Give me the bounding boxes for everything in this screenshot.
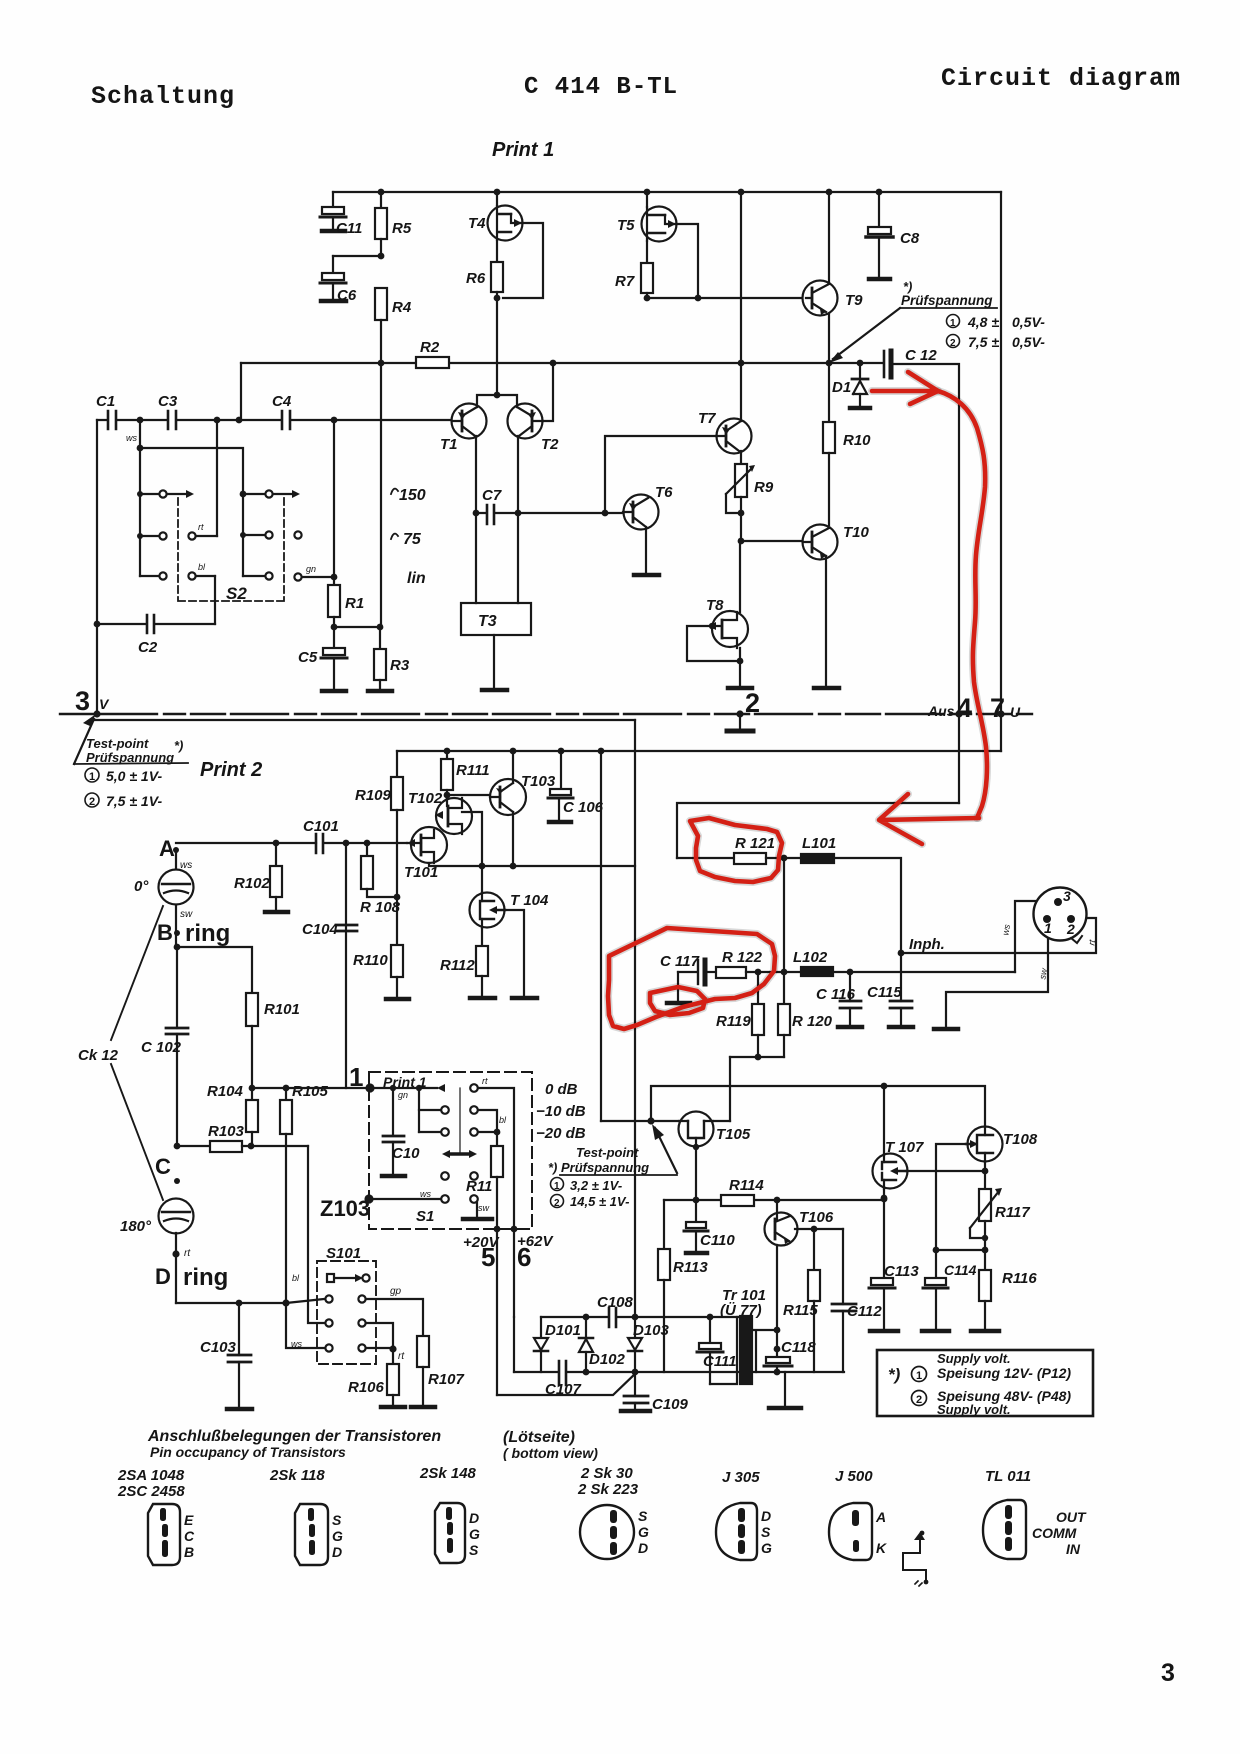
transistor T106 [776, 1200, 778, 1213]
svg-text:C6: C6 [337, 287, 357, 304]
capacitor C104 [345, 843, 347, 1088]
svg-text:R 120: R 120 [792, 1013, 833, 1030]
S2 row3 left [140, 575, 159, 577]
capacitor C11 [332, 192, 334, 207]
svg-text:C3: C3 [158, 393, 178, 410]
svg-text:R104: R104 [207, 1083, 244, 1100]
svg-text:S: S [761, 1524, 771, 1540]
svg-text:G: G [761, 1540, 772, 1556]
svg-text:R9: R9 [754, 479, 774, 496]
wire bl vertical to S101 [308, 1146, 324, 1323]
transistor T9 [803, 281, 838, 316]
svg-text:gp: gp [390, 1286, 402, 1297]
svg-text:Prüfspannung: Prüfspannung [901, 293, 993, 308]
svg-text:V: V [99, 696, 110, 712]
svg-text:Z103: Z103 [320, 1196, 370, 1221]
svg-text:rt: rt [398, 1351, 405, 1362]
svg-text:2: 2 [916, 1394, 922, 1406]
svg-text:3: 3 [75, 686, 90, 716]
svg-text:T 107: T 107 [885, 1139, 924, 1156]
resistor R119 [757, 972, 759, 1004]
svg-text:(Lötseite): (Lötseite) [503, 1429, 575, 1446]
svg-text:T2: T2 [541, 436, 559, 453]
capacitor C2 [147, 615, 154, 633]
svg-text:3: 3 [1161, 1659, 1175, 1687]
svg-text:R119: R119 [716, 1013, 751, 1030]
package 2SA1048 [148, 1504, 180, 1565]
svg-text:OUT: OUT [1056, 1509, 1087, 1525]
svg-text:R112: R112 [440, 957, 475, 974]
box T3 [461, 603, 531, 635]
svg-text:gn: gn [398, 1090, 408, 1100]
wire +20V wrap line [497, 1372, 637, 1395]
wire R121 node down [783, 858, 785, 1004]
svg-text:T3: T3 [478, 613, 497, 630]
resistor R6 [496, 240, 498, 262]
svg-text:S1: S1 [416, 1208, 434, 1225]
wire T108 source to gate line [984, 1162, 986, 1171]
wire C12 out down to Print2 [894, 364, 959, 803]
wire C6 to R5R4 node [333, 255, 381, 257]
svg-text:R6: R6 [466, 270, 486, 287]
label test voltages print1 [947, 315, 960, 328]
svg-text:rt: rt [198, 522, 204, 532]
capsule A line y=843 [176, 842, 407, 844]
package TL011 [983, 1500, 1026, 1559]
svg-text:R110: R110 [353, 952, 388, 969]
svg-text:bl: bl [292, 1273, 300, 1283]
svg-text:2: 2 [745, 688, 760, 718]
svg-text:C: C [184, 1528, 195, 1544]
svg-text:T 104: T 104 [510, 892, 549, 909]
svg-text:C5: C5 [298, 649, 318, 666]
svg-text:Ck 12: Ck 12 [78, 1047, 119, 1064]
svg-text:rt: rt [482, 1076, 488, 1086]
red loop around C117 R122 [608, 928, 775, 1029]
svg-text:4,8 ±: 4,8 ± [967, 314, 999, 330]
svg-text:T108: T108 [1003, 1131, 1038, 1148]
test-point block print2 left [74, 719, 94, 764]
svg-text:T5: T5 [617, 217, 635, 234]
wire T102 source to line [462, 812, 482, 866]
package 2Sk118 [295, 1504, 328, 1565]
capacitor C5 [333, 627, 335, 648]
wire T2 emitter down [517, 436, 519, 513]
svg-text:C8: C8 [900, 230, 920, 247]
wire Inph to pin2 [901, 918, 1096, 953]
ground T10 [825, 556, 827, 686]
resistor R122 [716, 967, 746, 978]
svg-text:7,5 ±: 7,5 ± [968, 334, 999, 350]
wire R105/D to S101 rows [286, 1299, 324, 1348]
svg-text:1: 1 [1044, 920, 1052, 936]
wire C7 node to T6 [518, 512, 623, 514]
switch S1 spare row [441, 1172, 449, 1180]
wire T6 collector up and to T7 [605, 436, 716, 513]
svg-text:*): *) [888, 1365, 901, 1384]
svg-text:B: B [184, 1544, 194, 1560]
node R5/R4/C6 [378, 253, 385, 260]
transistor T7 [717, 419, 752, 454]
svg-text:4: 4 [957, 693, 972, 723]
svg-text:C112: C112 [847, 1303, 882, 1320]
svg-text:C 414 B-TL: C 414 B-TL [524, 74, 678, 101]
transistor T102 [436, 798, 472, 834]
wire T103 collector/emitter [512, 751, 514, 866]
wire pin3 [1015, 901, 1055, 972]
wire R113 riser [663, 1200, 665, 1249]
capacitor C101 [316, 834, 323, 853]
svg-text:R10: R10 [843, 432, 871, 449]
svg-text:C 106: C 106 [563, 799, 604, 816]
svg-text:1: 1 [916, 1370, 922, 1382]
wire B to R101 [174, 944, 181, 951]
label 150 75 lin [391, 489, 398, 494]
svg-text:R109: R109 [355, 787, 392, 804]
svg-text:5: 5 [481, 1242, 495, 1272]
svg-text:R 121: R 121 [735, 835, 775, 852]
wire T7 collector to rail [740, 192, 742, 421]
svg-text:ws: ws [126, 433, 137, 443]
svg-text:C118: C118 [781, 1339, 816, 1356]
svg-text:G: G [332, 1528, 343, 1544]
resistor R110 [391, 945, 403, 977]
svg-text:1: 1 [349, 1062, 363, 1092]
S2 row1 left contacts+arrow [140, 493, 159, 495]
svg-text:R103: R103 [208, 1123, 245, 1140]
svg-text:T10: T10 [843, 524, 870, 541]
wire C2 to S2 wiper w [214, 576, 216, 624]
resistor R4 [375, 288, 387, 320]
transistor T1 [452, 404, 487, 439]
wire T1,T2 emitters into T3 [476, 513, 518, 603]
svg-text:lin: lin [407, 570, 426, 587]
svg-text:Print 1: Print 1 [492, 139, 554, 161]
box exit nodes [494, 1226, 501, 1233]
svg-text:R106: R106 [348, 1379, 385, 1396]
svg-text:Pin occupancy of Transistors: Pin occupancy of Transistors [150, 1444, 346, 1460]
svg-text:sw: sw [478, 1203, 490, 1213]
svg-text:150: 150 [399, 487, 426, 504]
transistor T103 [490, 779, 526, 815]
capacitor C7 [476, 512, 518, 514]
wire corner rail to C3C4 node [240, 363, 242, 420]
svg-text:Print 2: Print 2 [200, 759, 262, 781]
wire gp to R107 [366, 1299, 423, 1336]
ground T3 [493, 635, 495, 688]
svg-text:S: S [469, 1542, 479, 1558]
svg-text:Inph.: Inph. [909, 936, 945, 953]
svg-text:*) Prüfspannung: *) Prüfspannung [548, 1160, 649, 1175]
svg-text:Test-point: Test-point [576, 1145, 639, 1160]
wire C4 node down to R1 [333, 420, 335, 577]
svg-text:1: 1 [554, 1181, 560, 1192]
resistor R5 [380, 192, 382, 208]
box Z103 dashed [369, 1072, 532, 1229]
svg-text:D: D [155, 1264, 171, 1289]
wire R103 line [174, 1143, 181, 1150]
svg-text:3,2 ± 1V-: 3,2 ± 1V- [570, 1178, 622, 1193]
capacitor C6 [332, 256, 334, 273]
wire T106 emitter down [776, 1245, 778, 1349]
svg-text:S101: S101 [326, 1245, 361, 1262]
transistor T8 [712, 611, 748, 647]
node R1 bottom [331, 624, 338, 631]
wire supply line B y=1372 [514, 1371, 844, 1373]
wire C114/R116 link [936, 1249, 985, 1251]
diode D102 [585, 1317, 587, 1337]
wire T2 base to R2 rail [543, 363, 553, 421]
svg-text:5,0 ± 1V-: 5,0 ± 1V- [106, 768, 163, 784]
svg-text:R 122: R 122 [722, 949, 763, 966]
svg-text:Schaltung: Schaltung [91, 82, 235, 111]
wire R6 node down to T1T2 bridge [496, 298, 498, 395]
ground line B [784, 1372, 786, 1406]
wire D line to S101 [176, 1302, 286, 1304]
svg-text:J 500: J 500 [835, 1468, 873, 1485]
capacitor C117 [678, 971, 696, 973]
svg-text:COMM: COMM [1032, 1525, 1077, 1541]
svg-text:G: G [638, 1524, 649, 1540]
svg-text:C101: C101 [303, 818, 339, 835]
diode D103 [634, 1317, 636, 1338]
wire S2 top link [140, 448, 243, 491]
svg-text:bl: bl [499, 1115, 507, 1125]
switch S2 left group [139, 420, 141, 448]
svg-text:1: 1 [950, 318, 956, 329]
svg-text:T102: T102 [408, 790, 443, 807]
wire T8 gate loop [687, 626, 740, 661]
svg-text:D101: D101 [545, 1322, 581, 1339]
transistor T101 [411, 827, 447, 863]
wire T103 base [447, 794, 490, 796]
wire T4 drain loop [503, 223, 543, 298]
red annotation group [608, 372, 987, 1029]
svg-text:2Sk 118: 2Sk 118 [269, 1467, 325, 1484]
svg-text:D1: D1 [832, 379, 851, 396]
resistor R2 [416, 357, 449, 368]
svg-text:K: K [876, 1540, 887, 1556]
symbol small FET [903, 1536, 926, 1581]
resistor R121 [677, 857, 734, 859]
svg-text:0,5V-: 0,5V- [1012, 334, 1045, 350]
svg-text:Aus: Aus [927, 703, 955, 719]
svg-text:Supply volt.: Supply volt. [937, 1402, 1011, 1417]
svg-text:R113: R113 [673, 1259, 708, 1276]
svg-text:TL 011: TL 011 [985, 1468, 1031, 1485]
svg-text:D102: D102 [589, 1351, 626, 1368]
svg-text:rt: rt [184, 1248, 191, 1259]
svg-text:R114: R114 [729, 1177, 764, 1194]
svg-text:0°: 0° [134, 878, 149, 895]
wire T8 drain/source [739, 541, 741, 688]
svg-text:C: C [155, 1154, 171, 1179]
svg-text:bl: bl [198, 562, 206, 572]
diode D1 [859, 363, 861, 379]
resistor R111 [446, 751, 448, 759]
svg-text:D: D [469, 1510, 479, 1526]
box supply note [877, 1350, 1093, 1416]
package 2Sk148 [435, 1503, 465, 1563]
package J305 [716, 1503, 757, 1560]
svg-text:3: 3 [1063, 888, 1071, 904]
resistor R3 [379, 627, 381, 649]
vertical x=829 rail to R10 [828, 192, 830, 363]
wire R114 line [664, 1199, 884, 1201]
wire rail y=1086 [651, 1086, 985, 1127]
capacitor C10 [392, 1088, 394, 1135]
svg-text:R7: R7 [615, 273, 635, 290]
node Inph [898, 950, 905, 957]
node dots on R2 rail [378, 360, 864, 367]
resistor R105 [283, 1085, 290, 1092]
svg-text:R107: R107 [428, 1371, 465, 1388]
wire T1 emitter down [475, 436, 477, 513]
svg-text:R102: R102 [234, 875, 271, 892]
terminal rail dashed y=714 [60, 713, 1032, 715]
svg-text:R117: R117 [995, 1204, 1030, 1221]
node dots on top rail [378, 189, 883, 196]
svg-text:R 108: R 108 [360, 899, 401, 916]
wire T1T2 collector bridge [477, 395, 517, 407]
wire row4 to R106 [366, 1347, 393, 1349]
svg-text:Circuit diagram: Circuit diagram [941, 64, 1181, 93]
red loop around R121 [690, 818, 782, 882]
svg-text:14,5 ± 1V-: 14,5 ± 1V- [570, 1194, 629, 1209]
svg-text:ws: ws [1000, 923, 1012, 936]
wire top supply rail y=192 [333, 191, 1001, 193]
svg-text:Anschlußbelegungen der Trans: Anschlußbelegungen der Transistoren [147, 1428, 441, 1445]
resistor R10 [828, 363, 830, 422]
svg-text:2: 2 [1066, 921, 1075, 937]
wire V line from terminal3 to box [94, 719, 635, 721]
svg-text:D103: D103 [633, 1322, 670, 1339]
svg-text:180°: 180° [120, 1218, 152, 1235]
node C2 left [94, 621, 101, 628]
svg-text:2 Sk 30: 2 Sk 30 [580, 1465, 633, 1482]
resistor R104 [249, 1085, 256, 1092]
svg-text:C4: C4 [272, 393, 292, 410]
resistor R108 [366, 843, 368, 856]
transformer secondary [752, 1330, 777, 1372]
svg-text:ws: ws [420, 1189, 431, 1199]
capacitor C109 [634, 1372, 636, 1396]
wire T104 gate to ground [505, 910, 524, 996]
capacitor C116 [849, 972, 851, 1001]
svg-text:7: 7 [990, 693, 1005, 723]
svg-text:C111: C111 [703, 1353, 737, 1370]
package 2Sk30 [580, 1505, 634, 1559]
wire input line y=420 [97, 419, 452, 421]
S2 dashed mech box [178, 498, 284, 601]
resistor R115 [813, 1229, 815, 1270]
svg-text:S: S [332, 1512, 342, 1528]
wire +62V corner [513, 1317, 515, 1372]
svg-text:Test-point: Test-point [86, 736, 149, 751]
svg-text:ring: ring [185, 920, 230, 947]
wire node1 line [252, 1087, 370, 1089]
wire pin1 to ground [946, 921, 1048, 1027]
wire T106 right to R115/C112 [795, 1228, 843, 1230]
svg-text:R1: R1 [345, 595, 364, 612]
svg-text:S: S [638, 1508, 648, 1524]
S2 row3 right [243, 575, 265, 577]
inductor L101 [801, 854, 834, 863]
svg-text:ws: ws [291, 1339, 302, 1349]
resistor R11 [496, 1132, 498, 1146]
svg-text:D: D [332, 1544, 342, 1560]
capacitor C115 [900, 953, 902, 1001]
svg-text:C2: C2 [138, 639, 158, 656]
svg-text:G: G [469, 1526, 480, 1542]
capacitor C1 [108, 411, 116, 429]
svg-text:C104: C104 [302, 921, 339, 938]
svg-text:C11: C11 [336, 220, 362, 237]
svg-text:−10 dB: −10 dB [536, 1103, 586, 1120]
transistor T5 [646, 192, 648, 207]
svg-text:2 Sk 223: 2 Sk 223 [577, 1481, 639, 1498]
svg-text:2: 2 [950, 338, 956, 349]
S2 row2 left [140, 535, 159, 537]
ground C117 [677, 972, 679, 1001]
svg-text:sw: sw [1037, 967, 1049, 980]
svg-text:C110: C110 [700, 1232, 735, 1249]
wire left edge vertical x=97 [96, 420, 98, 712]
svg-text:C113: C113 [884, 1263, 919, 1280]
svg-text:R116: R116 [1002, 1270, 1037, 1287]
wire row3 jog [366, 1323, 393, 1349]
svg-text:R5: R5 [392, 220, 412, 237]
resistor R116 [984, 1250, 986, 1270]
transistor T107 [873, 1154, 908, 1189]
svg-text:Speisung 12V- (P12): Speisung 12V- (P12) [937, 1365, 1071, 1381]
wire T107 drain vertical [883, 1086, 885, 1278]
resistor R101 [246, 993, 258, 1026]
resistor R102 [275, 843, 277, 866]
resistor R120 [778, 1004, 790, 1035]
svg-text:C109: C109 [652, 1396, 689, 1413]
node dots on input line [137, 417, 338, 424]
node R6 bottom [494, 295, 501, 302]
svg-text:0 dB: 0 dB [545, 1081, 578, 1098]
svg-text:gn: gn [306, 564, 316, 574]
svg-text:−20 dB: −20 dB [536, 1125, 586, 1142]
svg-text:T106: T106 [799, 1209, 834, 1226]
capacitor C3 [168, 411, 176, 429]
svg-text:C1: C1 [96, 393, 115, 410]
svg-text:T7: T7 [698, 410, 716, 427]
svg-text:C108: C108 [597, 1294, 634, 1311]
wire T108 gate from C114 riser [936, 1144, 966, 1250]
svg-text:A: A [875, 1509, 886, 1525]
svg-text:T9: T9 [845, 292, 863, 309]
svg-text:D: D [761, 1508, 771, 1524]
svg-text:6: 6 [517, 1242, 531, 1272]
svg-text:R4: R4 [392, 299, 412, 316]
transistor T6 [624, 495, 659, 530]
switch S1 rows2-3 [418, 1088, 420, 1132]
svg-text:E: E [184, 1512, 194, 1528]
capacitor C102 [176, 947, 178, 1028]
red wavy line down right side [938, 391, 987, 818]
svg-text:sw: sw [180, 909, 193, 920]
capacitor C4 [282, 411, 290, 429]
capacitor C118 [774, 1346, 781, 1353]
svg-text:Supply volt.: Supply volt. [937, 1351, 1011, 1366]
wire C2 line [97, 623, 215, 625]
capacitor C108 [609, 1308, 616, 1327]
svg-text:C 102: C 102 [141, 1039, 182, 1056]
